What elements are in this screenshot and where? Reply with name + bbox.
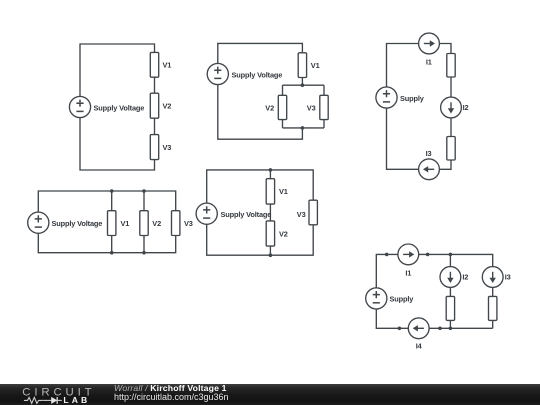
wire c4 V2 branch (143, 191, 145, 253)
wire c6 R-bottom left (449, 320, 451, 328)
resistor V2 (c5) (266, 221, 274, 246)
svg-text:V3: V3 (163, 143, 172, 152)
wire c5 bottom (207, 224, 314, 255)
wire c1 bottom (80, 118, 155, 170)
logo resistor-diode symbol (24, 397, 62, 404)
wire c2 split bar (283, 84, 325, 86)
svg-text:V2: V2 (152, 219, 161, 228)
node c5 bottom (269, 253, 273, 257)
resistor V2 (c4) (140, 211, 148, 236)
svg-text:I1: I1 (405, 269, 411, 278)
wire c2 V3 branch top (323, 85, 325, 95)
svg-text:Supply Voltage: Supply Voltage (94, 103, 145, 112)
svg-text:I1: I1 (426, 58, 432, 67)
resistor c3 lower (447, 137, 455, 161)
svg-text:I2: I2 (463, 103, 469, 112)
wire c2 join bar (283, 127, 325, 129)
resistor V2 (c2) (278, 95, 286, 119)
node c6 top b (426, 253, 430, 257)
resistor V1 (c2) (298, 53, 306, 78)
svg-text:V3: V3 (307, 103, 316, 112)
wire c5 mid branch top (269, 170, 271, 179)
resistor V1 (c5) (266, 179, 274, 204)
wire c6 bottom-left (376, 309, 408, 328)
footer bar (0, 384, 540, 405)
wire c2 bottom (218, 85, 303, 140)
node c5 top (269, 168, 273, 172)
wire c3 bottom-right (439, 160, 451, 169)
wire c6 I2 branch top (449, 254, 451, 266)
svg-text:V1: V1 (279, 187, 288, 196)
wire c4 V1 branch (111, 191, 113, 253)
svg-text:I3: I3 (426, 149, 432, 158)
wire c3 top-left (387, 44, 419, 87)
current source I2 (c3) (441, 97, 462, 118)
resistor c6 left (446, 296, 454, 320)
svg-text:V1: V1 (163, 61, 172, 70)
voltage source Supply Voltage (c1) (69, 96, 90, 117)
voltage source Supply Voltage (c2) (207, 63, 228, 84)
wire c1 loop (80, 44, 155, 96)
wire c2 V2 branch bottom (282, 120, 284, 128)
voltage source Supply Voltage (c4) (28, 212, 49, 233)
svg-text:V2: V2 (265, 103, 274, 112)
node c6 top a (385, 253, 389, 257)
voltage source Supply (c6) (366, 288, 387, 309)
wire c1 V1-V2 (154, 77, 156, 93)
node c6 bot b (438, 327, 442, 331)
wire c1 V2-V3 (154, 118, 156, 134)
svg-text:Supply Voltage: Supply Voltage (232, 70, 283, 79)
wire c3 R1-I2 (450, 77, 452, 97)
wire c2 V3 branch bottom (323, 120, 325, 128)
node c4 V1 top (110, 189, 114, 193)
wire c5 V1-V2 (269, 204, 271, 221)
svg-text:Supply: Supply (400, 94, 425, 103)
svg-text:V3: V3 (184, 219, 193, 228)
current source I3 (c6) (482, 267, 503, 288)
node c2 top junction (301, 83, 305, 87)
resistor V3 (c5) (309, 200, 317, 225)
node c4 V2 top (142, 189, 146, 193)
resistor c6 right (489, 296, 497, 320)
wire c5 top (207, 170, 314, 203)
svg-text:I4: I4 (416, 342, 423, 351)
svg-text:Supply Voltage: Supply Voltage (221, 210, 272, 219)
current source I3 (c3) (419, 159, 440, 180)
resistor c3 upper (447, 54, 455, 78)
wire c6 top-left (376, 254, 398, 287)
wire c4 top (38, 191, 175, 212)
svg-text:Supply Voltage: Supply Voltage (52, 219, 103, 228)
voltage source Supply (c3) (376, 87, 397, 108)
wire c5 mid branch bottom (269, 246, 271, 255)
svg-text:V1: V1 (121, 219, 130, 228)
resistor V3 (c4) (172, 211, 180, 236)
current source I2 (c6) (440, 267, 461, 288)
node c6 bot c (449, 327, 453, 331)
current source I4 (c6) (408, 318, 429, 339)
wire c2 V1-junction (301, 78, 303, 86)
resistor V3 (c2) (320, 95, 328, 119)
current source I1 (c6) (398, 244, 419, 265)
svg-text:Supply: Supply (390, 295, 415, 304)
wire c4 bottom (38, 233, 175, 252)
footer url (114, 393, 229, 402)
wire c6 R-bottom right (492, 320, 494, 328)
svg-text:V1: V1 (311, 61, 320, 70)
wire c3 top-right (439, 44, 451, 54)
resistor V1 (c1) (150, 52, 158, 77)
svg-text:LAB: LAB (63, 395, 90, 405)
resistor V2 (c1) (150, 93, 158, 118)
wire c3 I2-R2 (450, 118, 452, 137)
node c4 V2 bottom (142, 251, 146, 255)
node c6 top c (449, 253, 453, 257)
wire c3 bottom-left (387, 108, 419, 169)
resistor V3 (c1) (150, 135, 158, 160)
footer title: Worrall / Kirchoff Voltage 1 (114, 384, 227, 393)
resistor V1 (c4) (108, 211, 116, 236)
node c6 bot a (398, 327, 402, 331)
wire c2 top (218, 43, 303, 63)
svg-text:I2: I2 (462, 273, 468, 282)
node c2 bottom junction (301, 126, 305, 130)
wire c6 top-right (419, 254, 493, 266)
wire c6 I2-R (449, 287, 451, 296)
svg-text:V2: V2 (163, 102, 172, 111)
voltage source Supply Voltage (c5) (196, 203, 217, 224)
wire c6 I3-R (492, 287, 494, 296)
svg-text:V3: V3 (297, 210, 306, 219)
wire c2 V2 branch top (282, 85, 284, 95)
svg-text:V2: V2 (279, 229, 288, 238)
node c4 V1 bottom (110, 251, 114, 255)
current source I1 (c3) (419, 33, 440, 54)
wire c6 bottom-right (429, 327, 493, 329)
svg-text:I3: I3 (505, 273, 511, 282)
CircuitLab logo wordmark (15, 384, 115, 405)
